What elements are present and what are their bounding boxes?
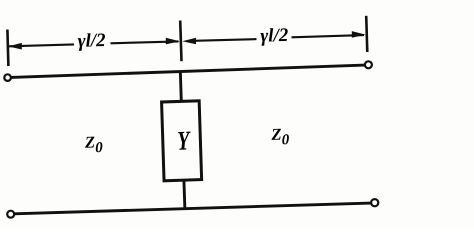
right dimension tick — [366, 16, 367, 52]
wire bottom conductor — [14, 203, 371, 214]
wire stub from top conductor to Y box — [180, 71, 181, 102]
right arrowhead of right gamma-l/2 dimension — [352, 31, 366, 38]
admittance Y box — [162, 101, 202, 181]
svg-text:Z0: Z0 — [84, 132, 104, 156]
terminal top-left — [4, 74, 11, 81]
svg-text:γl/2: γl/2 — [77, 30, 106, 52]
left arrowhead of left gamma-l/2 dimension — [8, 43, 22, 50]
left arrowhead of right gamma-l/2 dimension — [182, 38, 196, 45]
wire dimension line right-a — [194, 39, 257, 41]
terminal top-right — [365, 61, 372, 68]
right arrowhead of left gamma-l/2 dimension — [166, 38, 180, 45]
wire top conductor — [11, 65, 365, 77]
svg-text:γl/2: γl/2 — [260, 25, 289, 47]
terminal bottom-left — [7, 211, 14, 218]
wire stub from Y box to bottom conductor — [184, 180, 185, 210]
left dimension tick — [6, 30, 10, 67]
svg-text:Z0: Z0 — [270, 124, 290, 148]
wire dimension line right-b — [292, 35, 365, 37]
wire dimension line left-b — [111, 41, 179, 43]
terminal bottom-right — [371, 199, 378, 206]
center dimension tick — [180, 21, 181, 62]
wire dimension line left-a — [9, 44, 74, 46]
